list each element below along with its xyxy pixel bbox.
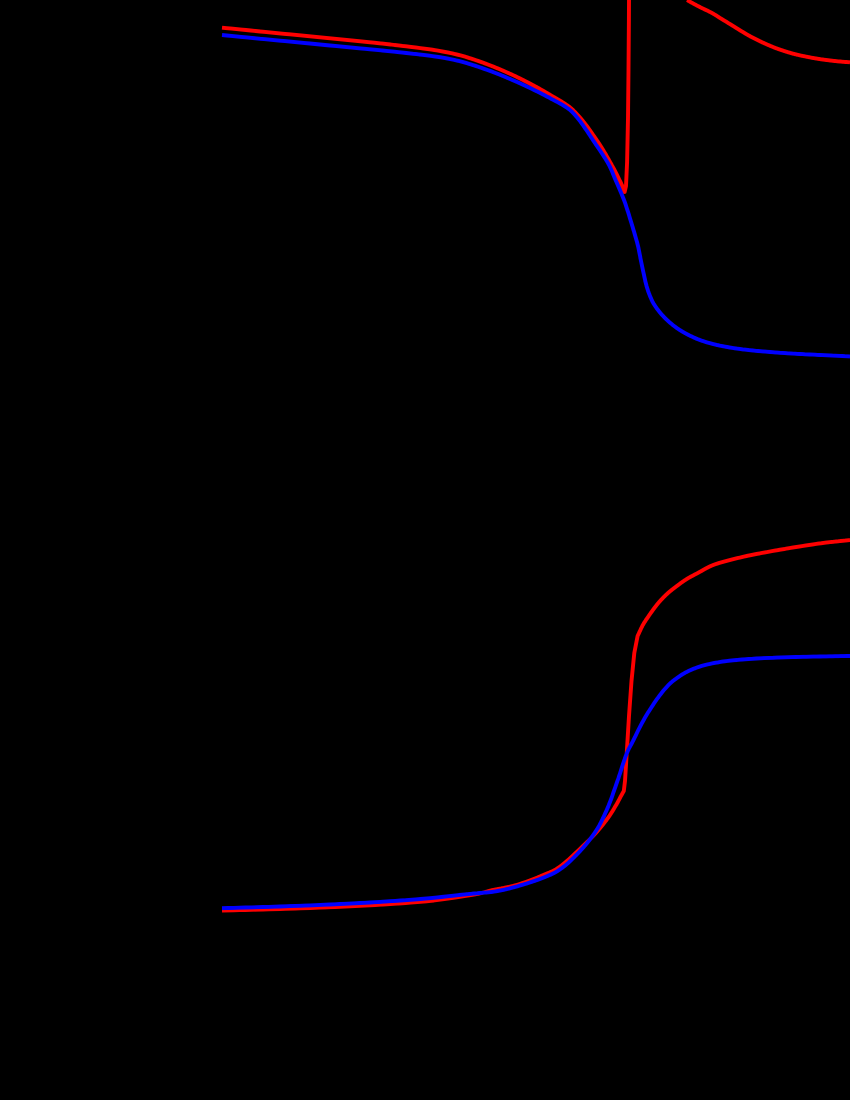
red curve: upper-left branch diving to V with divergence spike	[222, 0, 629, 192]
blue curve: upper panel decreasing sigmoid	[222, 35, 850, 356]
blue curve: lower panel rising sigmoid	[222, 656, 850, 908]
red curve: lower panel rising branch with first-order jump	[222, 540, 850, 911]
red curve: upper-right decaying branch	[687, 0, 850, 62]
